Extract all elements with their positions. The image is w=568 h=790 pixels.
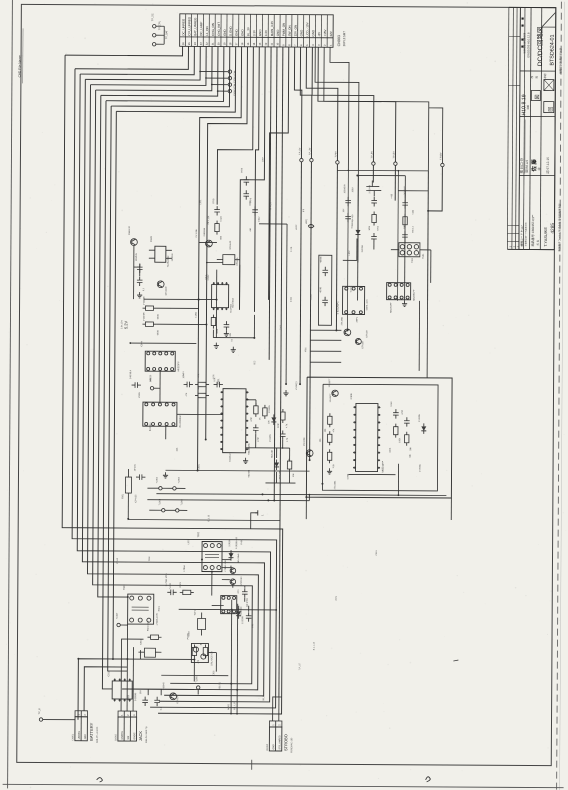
svg-text:L902: L902 — [349, 250, 351, 256]
capacitor C915 — [242, 591, 248, 593]
svg-text:T.P6V: T.P6V — [335, 151, 337, 158]
svg-text:18: 18 — [228, 42, 232, 45]
svg-text:IC904: IC904 — [141, 341, 143, 348]
wire — [230, 566, 232, 568]
svg-text:22: 22 — [205, 42, 209, 45]
svg-text:商品番号 CBD357-03**: 商品番号 CBD357-03** — [530, 214, 535, 247]
svg-text:TL904: TL904 — [159, 498, 161, 505]
svg-text:5.2V: 5.2V — [123, 320, 128, 329]
svg-text:CHG_ON: CHG_ON — [211, 23, 215, 36]
svg-text:10/MT4: 10/MT4 — [183, 370, 185, 378]
wire pin16 rail — [269, 47, 271, 360]
svg-text:4.7K: 4.7K — [286, 423, 288, 428]
capacitor C914 — [404, 420, 410, 422]
svg-text:10K: 10K — [325, 428, 327, 432]
svg-text:BATTERY: BATTERY — [89, 722, 94, 740]
wire — [216, 270, 218, 300]
wire connector pin 2 to left bus — [75, 46, 188, 70]
svg-text:S-8241: S-8241 — [351, 285, 353, 293]
svg-text:STROBO: STROBO — [283, 734, 288, 751]
svg-text:BTSD624-01: BTSD624-01 — [550, 34, 556, 65]
svg-text:TP_DC: TP_DC — [151, 13, 154, 21]
resistor R905 — [403, 217, 407, 225]
resistor R914 — [327, 452, 331, 460]
svg-text:45*103: 45*103 — [135, 464, 137, 471]
svg-text:XP161A9: XP161A9 — [229, 240, 232, 250]
svg-text:0.1: 0.1 — [231, 338, 233, 342]
svg-text:NJU7662: NJU7662 — [231, 303, 233, 313]
svg-text:配電設計課 電装設計部: 配電設計課 電装設計部 — [558, 47, 562, 73]
driver IC902 — [212, 285, 229, 308]
capacitor C913 — [393, 412, 399, 414]
capacitor C901 — [214, 209, 220, 211]
connector CN903 26P — [180, 14, 334, 47]
transistor Q909 — [206, 240, 213, 247]
wire — [391, 249, 399, 251]
svg-text:DR 8YB2: DR 8YB2 — [247, 597, 249, 607]
svg-text:BAT_UNREG: BAT_UNREG — [193, 17, 197, 36]
svg-text:R921: R921 — [159, 605, 161, 611]
svg-text:C4'1.15K: C4'1.15K — [196, 228, 198, 237]
svg-text:T902: T902 — [280, 324, 282, 330]
wire pin23b rail plain — [314, 47, 359, 262]
wire pin14 rail — [255, 47, 260, 312]
svg-text:M62281FP: M62281FP — [391, 302, 393, 313]
svg-text:M62213FP: M62213FP — [382, 460, 385, 472]
svg-text:2SC4081: 2SC4081 — [304, 437, 306, 447]
svg-text:1K: 1K — [259, 417, 261, 420]
svg-text:0.1: 0.1 — [143, 287, 145, 291]
svg-text:11: 11 — [270, 42, 274, 45]
svg-text:22K: 22K — [268, 420, 270, 424]
svg-text:CN904: CN904 — [267, 743, 269, 751]
wire connector pin 5 to left bus — [90, 46, 206, 86]
diode D902 — [271, 417, 276, 422]
transistor Q907 — [230, 568, 236, 574]
svg-text:C4B 5B.A: C4B 5B.A — [129, 369, 132, 379]
svg-text:2: 2 — [278, 724, 281, 726]
wire connector pin 7 to left bus — [101, 46, 218, 96]
wire connector pin 8 to left bus — [106, 46, 224, 102]
connector CN901 BATTERY — [75, 711, 87, 717]
svg-text:0.022: 0.022 — [259, 216, 261, 222]
svg-text:RD6.2M: RD6.2M — [279, 471, 281, 479]
svg-text:STB_UNREG: STB_UNREG — [279, 735, 281, 749]
svg-text:IC905: IC905 — [139, 391, 141, 398]
svg-text:C+'01: C+'01 — [291, 246, 293, 252]
svg-text:T901: T901 — [423, 253, 425, 259]
svg-text:+485: +485 — [413, 209, 415, 215]
svg-text:2: 2 — [323, 44, 327, 46]
wire connector pin 1 to left bus — [65, 46, 183, 56]
svg-text:3: 3 — [317, 44, 321, 46]
wire top rail — [337, 169, 428, 172]
test point TP10 — [200, 70, 228, 72]
svg-text:6: 6 — [299, 44, 303, 46]
capacitor C924 — [322, 269, 328, 271]
svg-text:10U/16V: 10U/16V — [136, 252, 138, 261]
svg-text:100K: 100K — [399, 437, 401, 442]
svg-text:CPA'_/5: CPA'_/5 — [269, 201, 272, 210]
wire pin18 rail to strobo — [279, 47, 283, 697]
svg-text:8R+/15x8: 8R+/15x8 — [238, 553, 240, 563]
wire connector pin 9 to left bus — [111, 46, 230, 107]
svg-text:MRB2: MRB2 — [228, 703, 230, 710]
capacitor C902 — [137, 266, 143, 268]
svg-text:IC901: IC901 — [218, 378, 220, 385]
svg-text:9: 9 — [281, 44, 285, 46]
wire — [144, 298, 217, 300]
fuse F901 — [125, 477, 131, 493]
wire pin25 rail plain — [323, 47, 429, 171]
svg-text:SW: SW — [128, 735, 130, 740]
handwritten mark bottom right — [426, 777, 431, 782]
svg-text:5*6'2.1: 5*6'2.1 — [412, 226, 414, 233]
svg-text:8*5'8: 8*5'8 — [241, 167, 243, 173]
capacitor C907 — [402, 202, 408, 204]
wire — [193, 659, 195, 681]
resistor R903 — [145, 322, 153, 326]
svg-text:GND: GND — [273, 744, 275, 749]
svg-text:1SR154: 1SR154 — [362, 244, 364, 252]
test point TP3 — [152, 42, 155, 45]
transistor Q904 — [355, 338, 361, 344]
wire — [404, 191, 406, 199]
revision mark squares — [521, 17, 523, 47]
wire — [212, 605, 224, 607]
photocoupler PC901 — [191, 643, 208, 662]
svg-text:470P: 470P — [402, 409, 404, 414]
wire — [163, 26, 165, 44]
wire left bus 6 — [92, 90, 255, 684]
wire — [305, 497, 307, 519]
svg-text:T.P_3V: T.P_3V — [309, 147, 311, 155]
svg-text:LTB6A-1070: LTB6A-1070 — [156, 612, 159, 625]
svg-text:220P: 220P — [278, 422, 280, 427]
svg-text:TL905: TL905 — [181, 498, 183, 505]
svg-text:TL906: TL906 — [170, 582, 172, 589]
wire — [276, 448, 278, 458]
capacitor C925 — [322, 299, 328, 301]
svg-text:0.022: 0.022 — [391, 401, 393, 407]
svg-text:100%: 100% — [233, 76, 236, 83]
frame bottom center tick — [251, 760, 253, 770]
svg-text:設計変更通知書受領: 設計変更通知書受領 — [522, 32, 526, 53]
svg-text:26PL2.5M?: 26PL2.5M? — [342, 31, 346, 47]
svg-text:26: 26 — [181, 42, 185, 45]
svg-text:R925: R925 — [128, 694, 130, 700]
resistor R916 — [405, 435, 409, 443]
wire pin26 rail — [329, 47, 349, 170]
svg-text:GND: GND — [223, 28, 227, 36]
svg-text:SBR4,.1DK: SBR4,.1DK — [367, 299, 369, 311]
wire pin22 rail with test point — [306, 47, 338, 160]
resistor R915 — [394, 427, 398, 435]
svg-text:S-80845: S-80845 — [135, 692, 137, 701]
ic IC908 — [342, 286, 364, 314]
svg-text:C4'1.15K: C4'1.15K — [208, 215, 210, 224]
svg-text:LTB6A-1069: LTB6A-1069 — [224, 559, 227, 572]
svg-text:47K: 47K — [198, 373, 200, 377]
svg-text:33K: 33K — [177, 447, 179, 451]
svg-text:+485: +485 — [391, 193, 393, 199]
svg-text:1: 1 — [329, 44, 333, 46]
svg-text:C+7981 1/8*5: C+7981 1/8*5 — [166, 573, 168, 587]
title block slash cell — [542, 13, 555, 27]
svg-text:CHG_INIT: CHG_INIT — [217, 22, 221, 36]
svg-text:1SS355: 1SS355 — [419, 414, 421, 422]
svg-text:LM22: LM22 — [296, 224, 298, 230]
svg-text:S-80845: S-80845 — [163, 682, 165, 691]
ground symbols cluster bottoms — [165, 472, 167, 475]
svg-text:15: 15 — [246, 42, 250, 45]
svg-text:2: 2 — [127, 714, 130, 716]
svg-text:DRLH2OZ-GR: DRLH2OZ-GR — [211, 651, 213, 666]
capacitor C906 — [345, 215, 351, 217]
svg-text:13: 13 — [258, 42, 262, 45]
capacitor C918 — [246, 615, 252, 617]
svg-text:SB_U: SB_U — [263, 695, 265, 701]
wire pin15 rail — [240, 47, 266, 310]
svg-text:32V_ON: 32V_ON — [294, 25, 298, 37]
svg-text:+8E/8E: +8E/8E — [320, 256, 322, 264]
svg-text:MA2830: MA2830 — [240, 606, 243, 615]
module shield box — [318, 255, 331, 325]
wire pin19 rail — [269, 47, 289, 300]
svg-text:T903: T903 — [123, 584, 126, 590]
svg-text:25: 25 — [187, 42, 191, 45]
capacitor C922 — [244, 179, 250, 181]
svg-text:機種コード P-117: 機種コード P-117 — [520, 225, 524, 247]
svg-text:TL907: TL907 — [117, 612, 119, 619]
wire — [140, 624, 142, 638]
svg-text:2SA1577: 2SA1577 — [329, 393, 332, 402]
ic IC907 — [387, 283, 411, 300]
capacitor C904 — [224, 324, 230, 326]
svg-text:承認: 承認 — [543, 73, 547, 79]
svg-text:33K: 33K — [410, 446, 412, 450]
svg-text:DTC114E: DTC114E — [166, 286, 168, 296]
resistor R909 — [263, 408, 267, 416]
wire — [179, 608, 276, 611]
small coupler D907 — [198, 618, 206, 629]
wire — [166, 469, 310, 472]
svg-text:100%: 100% — [233, 83, 236, 90]
resistor R920 — [203, 648, 207, 656]
svg-text:2SA1577: 2SA1577 — [328, 378, 331, 387]
wire — [310, 329, 341, 331]
resistor R921 — [372, 215, 376, 223]
resistor R911 — [287, 461, 291, 469]
test point TL905 — [197, 686, 200, 689]
svg-text:UNREG: UNREG — [122, 731, 124, 740]
regulator IC903 — [155, 246, 166, 262]
transformer T903 — [128, 594, 154, 624]
wire pin17 rail center long — [274, 47, 277, 500]
svg-text:PIN10: PIN10 — [117, 557, 119, 564]
resistor R908 — [254, 406, 258, 414]
svg-text:0.022: 0.022 — [221, 215, 223, 221]
svg-text:R921 120K: R921 120K — [148, 620, 150, 631]
svg-text:10U: 10U — [140, 690, 142, 694]
svg-text:GND/2: GND/2 — [134, 732, 136, 740]
capacitor C908 — [402, 234, 408, 236]
svg-text:TL902: TL902 — [156, 476, 158, 483]
svg-text:+82/81: +82/81 — [320, 286, 322, 293]
svg-text:T.P_B: T.P_B — [39, 708, 41, 715]
connector CN904 STROBO — [269, 721, 281, 727]
svg-text:3,6v,12%: 3,6v,12% — [121, 320, 123, 329]
svg-text:GND: GND — [240, 29, 244, 37]
svg-text:CN902: CN902 — [115, 733, 117, 741]
svg-text:C915: C915 — [376, 550, 378, 556]
svg-text:NJU7662: NJU7662 — [233, 297, 235, 307]
svg-text:2SC4081: 2SC4081 — [334, 480, 336, 490]
wire left bus 2 — [71, 69, 279, 708]
ground — [225, 331, 227, 334]
wire — [340, 459, 356, 461]
svg-text:T.P32V: T.P32V — [440, 152, 442, 160]
inductor L901 — [308, 224, 320, 227]
resistor R912 — [328, 416, 332, 424]
svg-text:5: 5 — [305, 44, 309, 46]
svg-text:1SS355: 1SS355 — [270, 434, 272, 442]
svg-text:+R's: +R's — [238, 590, 240, 594]
jumper J2 — [162, 509, 165, 512]
svg-text:H10.8.19: H10.8.19 — [521, 94, 527, 115]
svg-text:XP161A: XP161A — [236, 257, 239, 266]
svg-text:T902: T902 — [149, 556, 151, 562]
wire loop inner — [322, 384, 438, 491]
svg-text:L903: L903 — [188, 539, 190, 545]
svg-text:1K: 1K — [200, 642, 202, 645]
svg-text:1SR154-400: 1SR154-400 — [352, 214, 354, 227]
svg-text:LCM1: LCM1 — [195, 311, 197, 317]
wire connector pin 6 to left bus — [96, 46, 212, 91]
svg-text:22K: 22K — [289, 458, 291, 462]
svg-text:32V: 32V — [329, 31, 333, 36]
svg-text:UNREG: UNREG — [79, 731, 81, 740]
svg-text:B.,1.13: B.,1.13 — [208, 514, 210, 521]
test point TP2 — [152, 33, 155, 36]
svg-text:M5223FP: M5223FP — [178, 361, 180, 371]
resistor R902 — [146, 306, 154, 310]
wire — [222, 567, 233, 569]
svg-text:2: 2 — [84, 714, 87, 716]
diode D904 — [421, 426, 426, 431]
svg-text:S-8241ABPC: S-8241ABPC — [336, 301, 339, 314]
svg-text:C932: C932 — [213, 670, 215, 676]
svg-text:IC911: IC911 — [108, 670, 110, 676]
svg-text:CN901: CN901 — [72, 733, 74, 741]
svg-text:33K: 33K — [410, 453, 412, 457]
svg-text:1SS355: 1SS355 — [420, 464, 422, 472]
svg-text:1SS355: 1SS355 — [269, 405, 271, 413]
test point TL907 — [117, 623, 120, 626]
wire — [157, 307, 199, 309]
svg-text:10K: 10K — [293, 473, 295, 477]
svg-text:14: 14 — [252, 42, 256, 45]
svg-text:RD6.2M: RD6.2M — [272, 450, 274, 458]
capacitor C920 — [371, 200, 377, 202]
svg-text:CPU_UNREG: CPU_UNREG — [187, 16, 191, 36]
svg-text:23: 23 — [199, 42, 203, 45]
ic IC911 — [112, 681, 132, 699]
wire pin12 rail — [206, 47, 248, 440]
svg-text:33K: 33K — [198, 385, 200, 389]
wire pin26b test point — [428, 108, 442, 163]
svg-text:TP_CPU: TP_CPU — [158, 21, 161, 31]
svg-text:10: 10 — [275, 42, 279, 45]
resistor R910 — [281, 412, 285, 420]
wire connector pin 10 to left bus — [116, 46, 235, 112]
svg-text:MAIN_3.3V: MAIN_3.3V — [270, 21, 274, 36]
svg-text:T.P_5V: T.P_5V — [299, 147, 301, 155]
svg-text:GND: GND — [85, 734, 87, 739]
svg-text:FOREMAC-190: FOREMAC-190 — [290, 737, 293, 753]
wire left bus 9 — [108, 106, 131, 671]
ground — [215, 343, 217, 346]
svg-text:本価格変更一?不要返却知: 本価格変更一?不要返却知 — [524, 222, 528, 246]
svg-text:100U/16V: 100U/16V — [344, 184, 346, 194]
svg-text:1: 1 — [272, 724, 275, 726]
svg-text:F901: F901 — [122, 493, 124, 499]
svg-text:T.P15V: T.P15V — [393, 151, 395, 159]
svg-text:図: 図 — [535, 95, 541, 100]
svg-text:PACB: PACB — [310, 294, 313, 300]
svg-text:680: 680 — [220, 235, 222, 239]
test point TP11 — [206, 77, 228, 79]
transistor Q901 — [131, 239, 138, 246]
svg-text:T.P_ST: T.P_ST — [299, 662, 301, 670]
svg-text:IC906: IC906 — [347, 473, 349, 479]
capacitor C903 — [137, 279, 143, 281]
wire left bus 1 — [61, 55, 286, 714]
svg-text:16V: 16V — [343, 208, 345, 212]
svg-text:1: 1 — [261, 514, 264, 516]
frame bottom second line — [3, 784, 564, 787]
wire long y519 — [128, 519, 280, 522]
svg-text:4: 4 — [311, 44, 315, 46]
connector CN902 JACK — [118, 711, 137, 717]
svg-text:10U/16V: 10U/16V — [172, 253, 174, 262]
ground — [139, 292, 141, 295]
svg-text:100U: 100U — [352, 187, 354, 192]
wire strobo feeds — [273, 697, 282, 721]
wire battery feed 1 — [78, 659, 127, 720]
svg-text:100%: 100% — [233, 89, 236, 96]
svg-text:2.2K: 2.2K — [333, 463, 335, 468]
test point TP13 — [218, 90, 228, 92]
svg-text:T.P_8V: T.P_8V — [371, 151, 373, 159]
svg-text:B2B-PH-LF1000: B2B-PH-LF1000 — [97, 726, 99, 743]
transistor Q903 — [344, 329, 351, 336]
svg-text:BA10324AF: BA10324AF — [179, 414, 182, 427]
capacitor C923 — [243, 193, 249, 195]
svg-text:R923: R923 — [180, 582, 182, 588]
mosfet M901 — [223, 255, 235, 265]
svg-text:設: 設 — [534, 76, 538, 79]
wire — [373, 191, 375, 197]
svg-text:2*101/6R: 2*101/6R — [144, 296, 146, 305]
svg-text:12: 12 — [264, 42, 268, 45]
svg-text:CN903: CN903 — [337, 35, 341, 46]
transistor Q906 — [306, 450, 313, 457]
svg-text:4.7K: 4.7K — [287, 437, 289, 442]
svg-text:TCP1: TCP1 — [195, 609, 197, 615]
svg-text:1: 1 — [121, 714, 124, 716]
resistor R919 — [192, 647, 196, 655]
